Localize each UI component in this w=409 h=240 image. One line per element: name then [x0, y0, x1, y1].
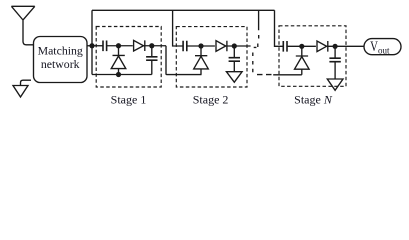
capacitor C2 (series) [183, 41, 187, 52]
Vout box [364, 39, 401, 55]
label Stage N [294, 92, 333, 106]
diode D1b (series) [134, 40, 145, 51]
capacitor C1out (shunt) [151, 46, 153, 75]
node B1 [149, 43, 154, 48]
wire drop to stage 2 input [173, 10, 183, 46]
stage N dashed box [279, 26, 346, 87]
antenna [11, 6, 34, 45]
label Stage 1 [111, 93, 147, 107]
stage 1 dashed box [96, 27, 161, 88]
svg-text:Matching: Matching [38, 44, 83, 58]
node B2 [232, 43, 237, 48]
wire D1b to node B1 [144, 45, 167, 47]
wire RF node to C1 [92, 45, 103, 47]
wire C1 to node A1 [107, 45, 133, 47]
ground (matching network) [13, 86, 28, 98]
wire rail stage 1 [92, 74, 152, 76]
ground (stage N) [327, 79, 343, 90]
diode D2a (shunt, cathode up) [194, 46, 209, 75]
svg-text:Stage N: Stage N [294, 92, 333, 106]
wire stage1 out drop to stage2 rail [166, 46, 202, 75]
diode DNa (shunt, cathode up) [295, 46, 310, 75]
capacitor C1 (series) [103, 41, 107, 52]
svg-text:out: out [378, 45, 390, 55]
wire C2 to D2b [187, 45, 215, 47]
svg-text:Stage 1: Stage 1 [111, 93, 147, 107]
node A1 [116, 43, 121, 48]
ground (stage 2) [226, 72, 242, 83]
node RF input [89, 43, 94, 48]
capacitor C2out (shunt) [233, 46, 235, 72]
label: Matching network [38, 44, 83, 71]
diode DNb (series) [317, 41, 328, 52]
wire RF node down to stage 1 rail [91, 46, 93, 75]
wire rail stage N [273, 74, 302, 76]
diode D2b (series) [216, 41, 227, 52]
wire D2b to node B2 [226, 45, 251, 47]
wire drop to stage N input [275, 10, 284, 46]
capacitor CN (series) [283, 41, 287, 52]
node rail stage 1 [116, 72, 121, 77]
matching network box [34, 37, 88, 83]
node BN [333, 44, 338, 49]
label Vout [370, 37, 390, 55]
ellipsis wire dashes (omitted stages) [253, 47, 272, 74]
svg-text:Stage 2: Stage 2 [193, 92, 229, 106]
node AN [299, 44, 304, 49]
svg-text:network: network [41, 57, 80, 71]
wire DNb to Vout [327, 45, 364, 47]
wire top bus [92, 9, 275, 11]
capacitor CNout (shunt) [334, 46, 336, 79]
wire CN to DNb [287, 45, 316, 47]
ground wire (matching network) [21, 80, 32, 85]
diode D1a (shunt, cathode up) [111, 46, 126, 75]
wire box to RF node [87, 45, 92, 47]
label Stage 2 [193, 92, 229, 106]
wire stub continuation [257, 10, 260, 47]
stage 2 dashed box [176, 27, 247, 87]
node A2 [198, 43, 203, 48]
wire riser RF node to top bus [91, 10, 93, 45]
